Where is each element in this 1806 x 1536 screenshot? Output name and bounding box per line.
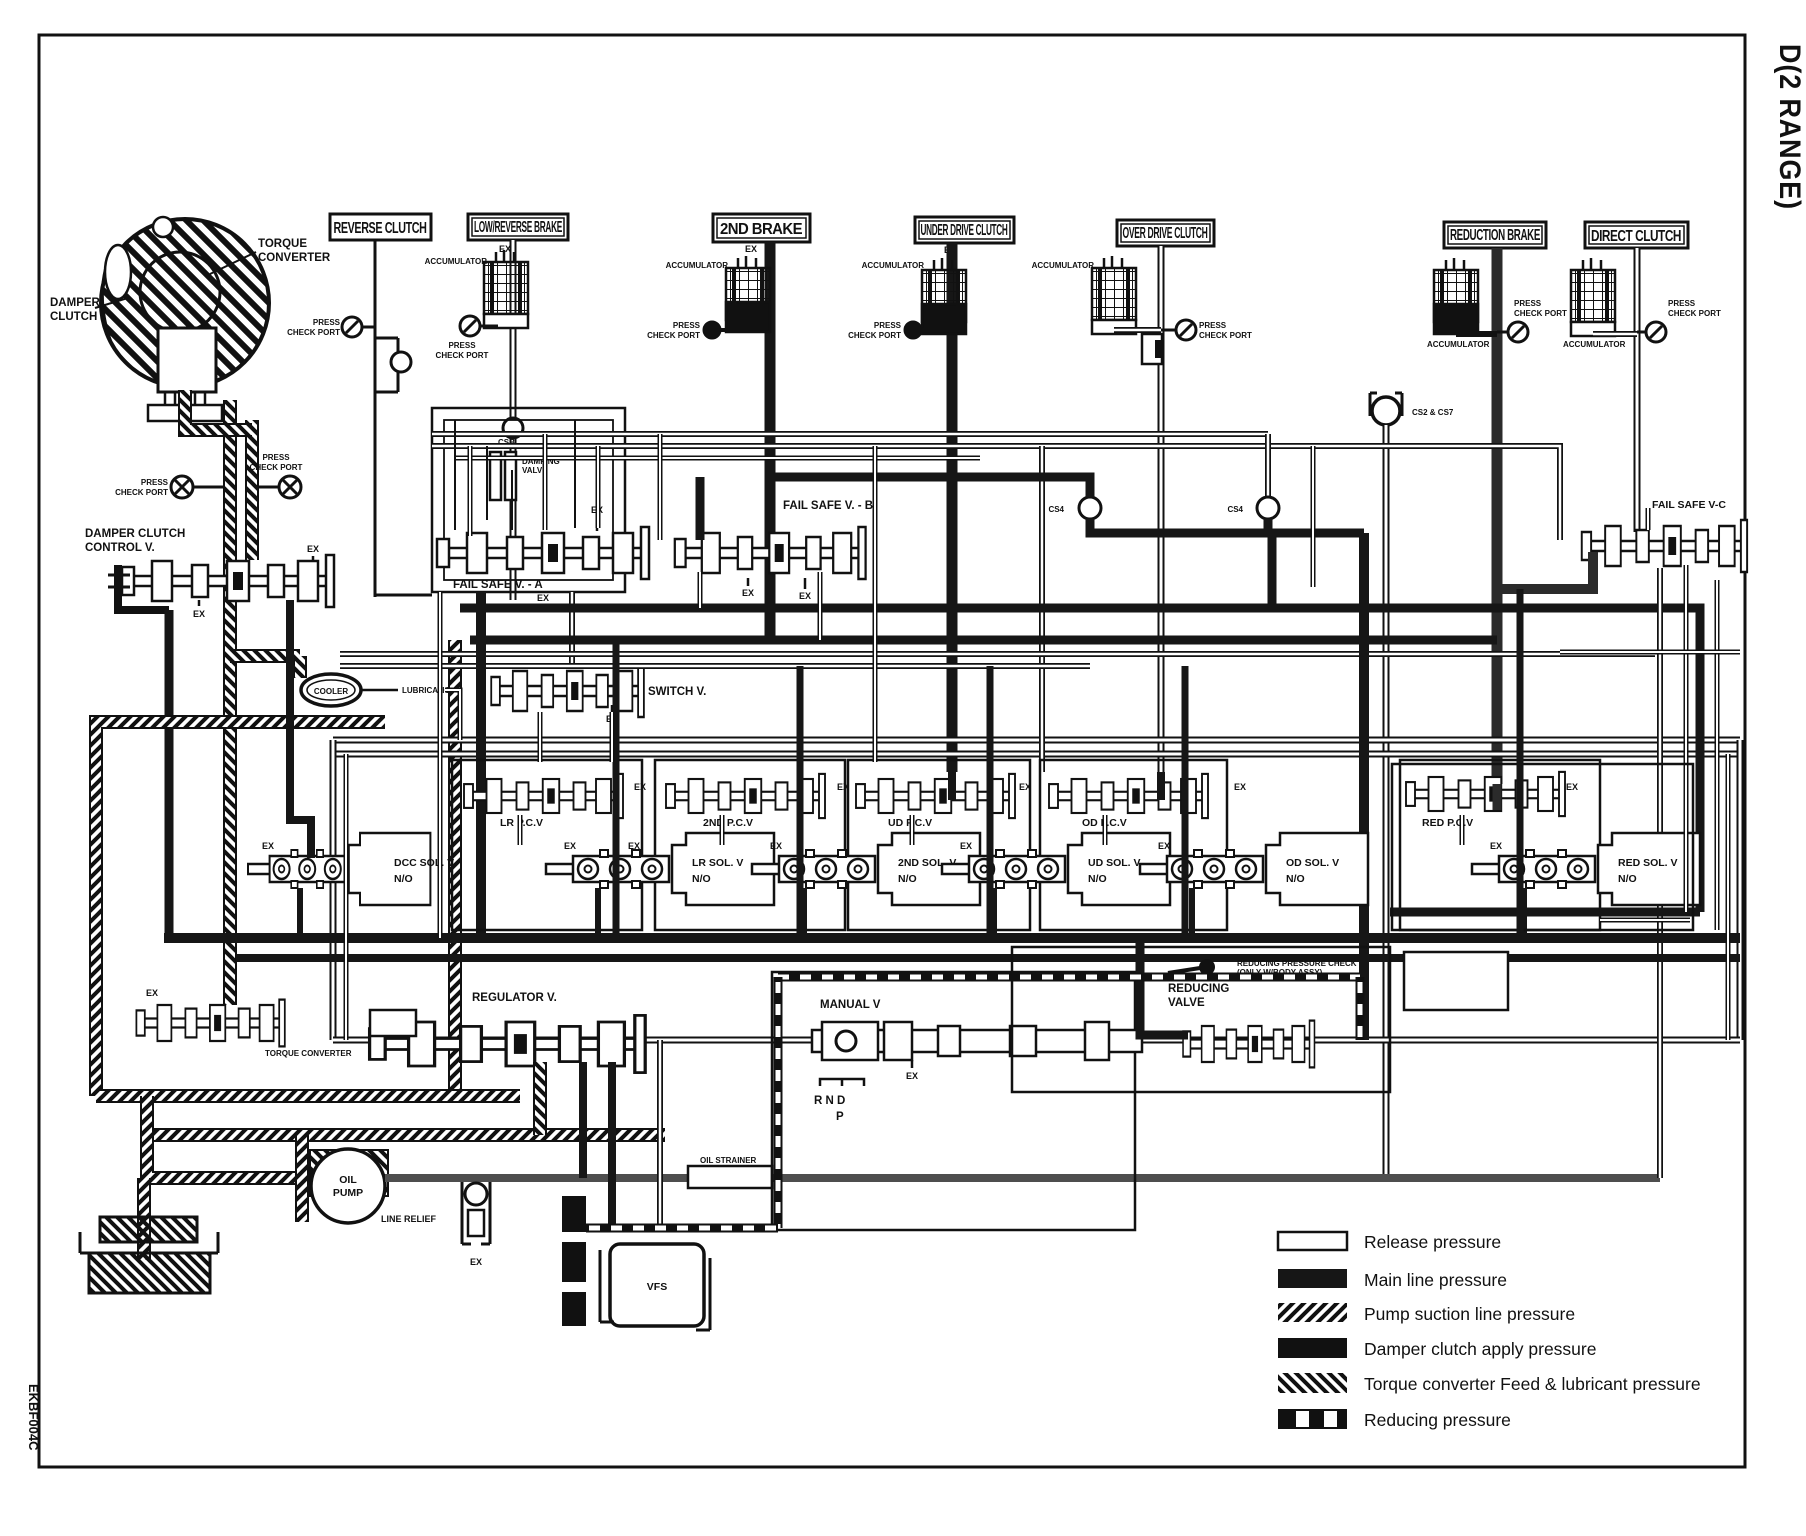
wire under drive main feed <box>947 243 958 772</box>
label box OVER DRIVE CLUTCH <box>1117 220 1214 246</box>
fsB riser pair <box>700 572 820 640</box>
torque converter hub comb <box>158 392 216 416</box>
svg-text:OD SOL. V: OD SOL. V <box>1286 857 1339 869</box>
svg-text:PUMP: PUMP <box>333 1187 363 1199</box>
svg-text:DIRECT CLUTCH: DIRECT CLUTCH <box>1591 228 1681 245</box>
pipe converter elbow top (hatched) <box>185 390 252 430</box>
regulator valve spool <box>370 1015 646 1072</box>
LR pcv box <box>452 760 642 930</box>
svg-text:EX: EX <box>906 1071 918 1081</box>
RED solenoid valve <box>1472 833 1700 905</box>
RED pressure control valve <box>1406 772 1565 816</box>
pipe left loop (hatched) <box>96 722 385 1096</box>
svg-text:D(2 RANGE): D(2 RANGE) <box>1773 44 1806 210</box>
check ball CS2 & CS7 <box>1372 397 1400 425</box>
svg-text:EX: EX <box>1158 841 1170 851</box>
svg-text:CHECK PORT: CHECK PORT <box>115 488 168 497</box>
svg-text:EX: EX <box>307 544 319 554</box>
wire fsA feeder stubs <box>470 434 598 536</box>
svg-text:TORQUE: TORQUE <box>258 238 307 250</box>
svg-text:ACCUMULATOR: ACCUMULATOR <box>666 261 729 270</box>
label box 2ND BRAKE <box>713 214 810 242</box>
svg-text:DAMPER: DAMPER <box>50 297 101 309</box>
svg-text:N/O: N/O <box>394 873 413 885</box>
pipe reducing dashed bottom <box>567 1224 778 1233</box>
DCC solenoid valve <box>248 833 430 905</box>
svg-text:PRESS: PRESS <box>141 478 169 487</box>
wire solenoid rail main <box>164 933 1740 943</box>
wire reduction brake main feed <box>1492 248 1503 784</box>
vfs body <box>610 1244 704 1326</box>
left boost valve spool <box>136 1000 284 1047</box>
wire right bank horizontals <box>1560 652 1740 920</box>
svg-text:N/O: N/O <box>1618 873 1637 885</box>
svg-text:ACCUMULATOR: ACCUMULATOR <box>1563 340 1626 349</box>
svg-text:EX: EX <box>745 244 757 254</box>
oil filter (hatched block) <box>100 1217 197 1242</box>
wire long release line mid <box>340 651 1655 657</box>
svg-text:CS2 & CS7: CS2 & CS7 <box>1412 408 1454 417</box>
svg-text:EX: EX <box>537 593 549 603</box>
svg-text:EX: EX <box>742 588 754 598</box>
check ball CS4 right <box>1257 497 1279 519</box>
svg-text:N/O: N/O <box>1286 873 1305 885</box>
svg-text:UNDER DRIVE CLUTCH: UNDER DRIVE CLUTCH <box>921 222 1008 239</box>
pipe accumulator to line <box>1114 327 1161 333</box>
svg-text:REVERSE CLUTCH: REVERSE CLUTCH <box>334 220 427 237</box>
check ball loop reverse <box>375 338 398 392</box>
svg-text:CHECK PORT: CHECK PORT <box>287 328 340 337</box>
label box UNDER DRIVE CLUTCH <box>915 217 1014 243</box>
svg-text:REGULATOR V.: REGULATOR V. <box>472 992 557 1004</box>
check ball CS4 left <box>1079 497 1101 519</box>
blank chamber box right <box>1404 952 1508 1010</box>
UD solenoid valve <box>942 833 1170 905</box>
2ND solenoid valve <box>752 833 980 905</box>
svg-text:REDUCTION BRAKE: REDUCTION BRAKE <box>1450 227 1541 244</box>
reducing pressure check <box>1199 959 1215 975</box>
svg-text:ACCUMULATOR: ACCUMULATOR <box>425 257 488 266</box>
wire low/reverse feed pipe <box>510 240 517 600</box>
svg-text:Reducing pressure: Reducing pressure <box>1364 1410 1511 1430</box>
svg-text:ACCUMULATOR: ACCUMULATOR <box>1032 261 1095 270</box>
RED pcv box <box>1400 760 1600 930</box>
pipe suction run to regulator (hatched) <box>96 1089 520 1103</box>
damper clutch control valve spool <box>122 555 334 607</box>
LR pressure control valve <box>464 774 623 818</box>
svg-text:CHECK PORT: CHECK PORT <box>250 463 303 472</box>
wire fsB feed drop <box>696 477 705 540</box>
svg-text:CHECK PORT: CHECK PORT <box>647 331 700 340</box>
svg-text:UD SOL. V: UD SOL. V <box>1088 857 1141 869</box>
fsA inner clutter <box>455 420 575 530</box>
wire reducing feed <box>1140 938 1188 1035</box>
pipe cooler feed (hatched) <box>230 649 300 663</box>
oil pan (hatched block) <box>80 1232 218 1253</box>
svg-text:EX: EX <box>564 841 576 851</box>
svg-text:RED SOL. V: RED SOL. V <box>1618 857 1678 869</box>
svg-text:EX: EX <box>262 841 274 851</box>
pipe accumulator to line <box>1456 331 1497 337</box>
OD pcv box <box>1040 760 1227 930</box>
svg-text:EX: EX <box>1019 782 1031 792</box>
pipe pan to pump (hatched) <box>147 1096 312 1178</box>
svg-text:CONTROL V.: CONTROL V. <box>85 542 155 554</box>
accumulator low/reverse <box>484 250 528 328</box>
wire over drive feed pipe <box>1158 246 1165 772</box>
svg-text:EX: EX <box>1234 782 1246 792</box>
svg-text:Release pressure: Release pressure <box>1364 1232 1501 1252</box>
svg-text:Main line pressure: Main line pressure <box>1364 1270 1507 1290</box>
label box LOW/REVERSE BRAKE <box>468 214 568 240</box>
svg-text:EX: EX <box>193 609 205 619</box>
LR solenoid valve <box>546 833 774 905</box>
pipe pan riser (hatched) <box>295 1135 309 1222</box>
svg-text:REDUCING PRESSURE CHECK: REDUCING PRESSURE CHECK <box>1237 959 1357 968</box>
wire lubrication <box>361 689 398 692</box>
wire solenoid rail lower <box>236 954 1740 962</box>
svg-text:RED P.C.V: RED P.C.V <box>1422 817 1473 829</box>
wire fsB feeder stub <box>660 434 875 762</box>
accumulator reduction <box>1434 258 1478 334</box>
svg-text:EX: EX <box>770 841 782 851</box>
svg-text:R N D: R N D <box>814 1095 845 1107</box>
svg-text:VFS: VFS <box>647 1281 667 1293</box>
legend release pressure <box>1278 1232 1347 1250</box>
svg-text:ACCUMULATOR: ACCUMULATOR <box>862 261 925 270</box>
svg-text:N/O: N/O <box>898 873 917 885</box>
wire lubrication rail <box>445 690 460 740</box>
legend damper clutch apply <box>1278 1338 1347 1358</box>
svg-text:CHECK PORT: CHECK PORT <box>848 331 901 340</box>
fail safe valve A spool <box>437 527 649 579</box>
wire top cross pair right <box>1311 446 1316 587</box>
svg-text:2ND BRAKE: 2ND BRAKE <box>720 221 803 238</box>
wire od pcv outputs <box>616 640 1185 938</box>
svg-text:CHECK PORT: CHECK PORT <box>1514 309 1567 318</box>
wire right return main <box>1390 908 1700 917</box>
wire regulator drains <box>583 1062 612 1228</box>
svg-text:PRESS: PRESS <box>1199 321 1227 330</box>
check ball low/reverse <box>503 418 523 438</box>
pipe suction run 2 (hatched) <box>147 1128 665 1142</box>
right section box <box>1392 764 1693 930</box>
svg-text:EX: EX <box>628 841 640 851</box>
svg-text:ACCUMULATOR: ACCUMULATOR <box>1427 340 1490 349</box>
accumulator direct <box>1571 258 1615 336</box>
wire dcc elbow <box>290 600 311 858</box>
wire pcv drop stubs <box>520 815 1462 845</box>
wire direct clutch feed pipe <box>1634 248 1641 532</box>
wire main 2nd to cs ball <box>770 477 1090 497</box>
reducing valve body box <box>1012 947 1390 1092</box>
wire dcc valve drain <box>165 610 174 938</box>
svg-text:PRESS: PRESS <box>313 318 341 327</box>
wire top manifold line 1 <box>432 431 1268 437</box>
UD pcv box <box>848 760 1030 930</box>
wire main to failsafe C <box>1268 533 1277 608</box>
wire switch drops <box>540 712 612 762</box>
wire failsafe C drain <box>1657 568 1663 1178</box>
svg-text:DCC SOL. V: DCC SOL. V <box>394 857 454 869</box>
svg-text:EX: EX <box>837 782 849 792</box>
wire reduction pcv drop <box>1493 784 1502 810</box>
svg-text:OIL: OIL <box>339 1174 357 1186</box>
svg-text:N/O: N/O <box>692 873 711 885</box>
press check port over drive <box>1176 320 1196 340</box>
wire reverse clutch feed <box>374 240 377 597</box>
shift gate RNDP <box>820 1079 864 1086</box>
svg-text:SWITCH V.: SWITCH V. <box>648 686 706 698</box>
wire ud od feeds into spools <box>952 772 1161 800</box>
wire long main lower <box>470 636 1497 645</box>
oil strainer line <box>385 1174 1660 1182</box>
accumulator over drive <box>1092 256 1136 334</box>
fail safe valve C spool <box>1582 520 1747 572</box>
check ball <box>391 352 411 372</box>
svg-text:CS4: CS4 <box>1227 505 1243 514</box>
svg-text:LR SOL. V: LR SOL. V <box>692 857 743 869</box>
svg-text:EX: EX <box>1566 782 1578 792</box>
svg-text:EX: EX <box>634 782 646 792</box>
OD pressure control valve <box>1049 774 1208 818</box>
wire reverse line into fsA <box>375 594 432 597</box>
svg-text:PRESS: PRESS <box>262 453 290 462</box>
svg-text:LOW/REVERSE BRAKE: LOW/REVERSE BRAKE <box>474 219 562 236</box>
press check port 2nd (plugged) <box>703 321 721 339</box>
wall inner right <box>1726 754 1731 1040</box>
svg-text:TORQUE CONVERTER: TORQUE CONVERTER <box>265 1049 352 1058</box>
svg-text:REDUCING: REDUCING <box>1168 983 1229 995</box>
damper apply pipe <box>118 565 169 610</box>
svg-text:CHECK PORT: CHECK PORT <box>1199 331 1252 340</box>
reducing valve spool <box>1183 1021 1314 1068</box>
press check port under drive (plugged) <box>904 321 922 339</box>
svg-text:EX: EX <box>1490 841 1502 851</box>
valve body outer wall top <box>333 737 1740 744</box>
svg-text:LINE RELIEF: LINE RELIEF <box>381 1214 437 1224</box>
wall inner left <box>344 754 349 1040</box>
press check port damper 1 <box>171 476 193 498</box>
legend torque converter feed <box>1278 1373 1347 1393</box>
svg-text:VALVE: VALVE <box>1168 997 1205 1009</box>
svg-text:EX: EX <box>146 988 158 998</box>
svg-text:EX: EX <box>470 1257 482 1267</box>
wire long release line mid2 <box>340 663 1090 669</box>
wire CS ball stem <box>1383 425 1390 1174</box>
fail safe A body box <box>432 408 625 592</box>
legend reducing pressure <box>1278 1409 1347 1429</box>
press check port low/reverse <box>460 316 480 336</box>
wire switch valve to lr box <box>538 712 543 760</box>
svg-text:EKBF004C: EKBF004C <box>26 1384 41 1451</box>
fail safe valve B spool <box>675 527 866 579</box>
svg-text:P: P <box>836 1111 844 1123</box>
wire fsA drain trunk <box>476 592 486 938</box>
wire top manifold line 2 <box>432 446 1560 540</box>
pipe reducing dashed left <box>774 977 783 1228</box>
accumulator under drive <box>922 258 966 334</box>
wire right bank verticals <box>1686 565 1717 930</box>
oil strainer symbol <box>688 1166 772 1188</box>
wire top manifold riser a <box>1265 434 1271 497</box>
svg-text:DAMPER CLUTCH: DAMPER CLUTCH <box>85 528 185 540</box>
pipe converter to dcc valve (hatched) <box>223 400 237 1005</box>
manual valve body box <box>772 972 1135 1230</box>
svg-text:PRESS: PRESS <box>874 321 902 330</box>
svg-text:CS4: CS4 <box>1048 505 1064 514</box>
legend pump suction <box>1278 1303 1347 1322</box>
svg-text:2ND P.C.V: 2ND P.C.V <box>703 817 753 829</box>
svg-text:PRESS: PRESS <box>673 321 701 330</box>
wire cs manifold main <box>1090 519 1364 533</box>
svg-text:CHECK PORT: CHECK PORT <box>1668 309 1721 318</box>
svg-text:EX: EX <box>960 841 972 851</box>
check housing over drive <box>1142 334 1162 364</box>
svg-text:FAIL SAFE V-C: FAIL SAFE V-C <box>1652 499 1726 511</box>
oil pump <box>311 1149 385 1223</box>
valve body outer wall left <box>330 740 337 1040</box>
damping valve <box>490 452 501 500</box>
wire direct clutch inner drop <box>1646 508 1651 530</box>
wire reduction branch to failsafe C <box>1497 552 1593 589</box>
press check port damper 2 <box>279 476 301 498</box>
accumulator 2nd brake <box>726 256 770 332</box>
svg-text:MANUAL V: MANUAL V <box>820 999 881 1011</box>
wire red pcv output <box>1517 589 1524 938</box>
wire 2nd brake main feed <box>765 242 776 642</box>
svg-text:N/O: N/O <box>1088 873 1107 885</box>
pipe reducing dashed right drop <box>1356 977 1365 1040</box>
valve body outer wall bottom <box>333 1037 1740 1044</box>
manual valve <box>812 1030 1142 1052</box>
line relief valve <box>462 1182 490 1244</box>
wire cs right branch <box>1264 519 1273 533</box>
wire od clutch crossover <box>1039 446 1045 772</box>
torque converter stand <box>148 405 222 421</box>
switch valve spool <box>491 665 644 717</box>
svg-text:Pump suction line pressure: Pump suction line pressure <box>1364 1304 1575 1324</box>
wire main vertical trunk <box>1359 533 1369 1040</box>
svg-text:PRESS: PRESS <box>1514 299 1542 308</box>
valve body outer wall right <box>1737 740 1744 1040</box>
press check port reverse <box>342 317 362 337</box>
2ND pressure control valve <box>666 774 825 818</box>
svg-text:CONVERTER: CONVERTER <box>258 252 331 264</box>
regulator pilot <box>370 1010 416 1036</box>
svg-text:PRESS: PRESS <box>1668 299 1696 308</box>
pipe midleft vertical (hatched) <box>448 640 462 1096</box>
cooler <box>301 674 361 706</box>
2ND pcv box <box>655 760 845 930</box>
pipe accumulator to line <box>1593 331 1637 337</box>
press check port reduction <box>1508 322 1528 342</box>
pipe regulator to converter (hatched) <box>533 1062 547 1135</box>
wire top manifold line 3 <box>455 456 980 461</box>
svg-text:PRESS: PRESS <box>448 341 476 350</box>
press check port direct <box>1646 322 1666 342</box>
svg-text:Torque converter Feed & lubric: Torque converter Feed & lubricant pressu… <box>1364 1374 1701 1394</box>
pipe reducing dashed top <box>778 973 1360 982</box>
svg-text:FAIL SAFE V. - B: FAIL SAFE V. - B <box>783 500 873 512</box>
label box REVERSE CLUTCH <box>330 214 431 240</box>
svg-text:CHECK PORT: CHECK PORT <box>436 351 489 360</box>
UD pressure control valve <box>856 774 1015 818</box>
wire body wall to strainer <box>657 1040 663 1225</box>
legend main line pressure <box>1278 1269 1347 1288</box>
svg-text:FAIL SAFE V. - A: FAIL SAFE V. - A <box>453 579 543 591</box>
wire switch valve riser <box>569 592 575 668</box>
OD solenoid valve <box>1140 833 1368 905</box>
svg-text:COOLER: COOLER <box>314 687 348 696</box>
label box DIRECT CLUTCH <box>1585 222 1688 248</box>
pipe converter feed 2 (hatched) <box>245 420 259 560</box>
svg-text:CLUTCH: CLUTCH <box>50 311 97 323</box>
wire sol stubs <box>300 888 1524 938</box>
svg-text:OVER DRIVE CLUTCH: OVER DRIVE CLUTCH <box>1123 225 1208 242</box>
oil pump hatch collar <box>310 1150 388 1196</box>
label box REDUCTION BRAKE <box>1444 222 1546 248</box>
svg-text:Damper clutch apply pressure: Damper clutch apply pressure <box>1364 1339 1596 1359</box>
vfs solenoid filter stack <box>562 1196 586 1326</box>
wire long main upper <box>460 608 1700 912</box>
torque converter body <box>101 217 269 392</box>
svg-text:EX: EX <box>799 591 811 601</box>
svg-text:OIL STRAINER: OIL STRAINER <box>700 1156 757 1165</box>
wire fsA to lr feed <box>438 592 443 938</box>
